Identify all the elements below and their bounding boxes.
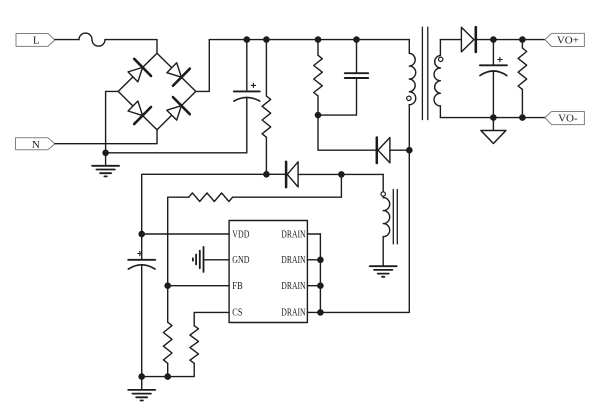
resistor R4 (feedback, horizontal)	[168, 193, 233, 202]
transformer T1 core	[422, 27, 427, 119]
node top rail / C1	[244, 36, 251, 43]
resistor R5 (FB lower divider)	[163, 286, 172, 377]
svg-text:VO-: VO-	[558, 112, 578, 124]
resistor R3 (output load)	[518, 40, 527, 118]
node top rail / R2	[315, 36, 322, 43]
wire GND pin	[204, 259, 230, 261]
wire bridge right vertex to top rail	[196, 40, 210, 92]
wire top DC rail	[209, 39, 409, 41]
diode D2 (bridge, top to right)	[163, 59, 189, 86]
wire primary ground rail	[106, 152, 247, 154]
diode D6 (output rectifier)	[461, 27, 475, 52]
resistor R2 (snubber, vertical)	[314, 40, 323, 116]
port tag VO+	[545, 33, 584, 46]
svg-text:VDD: VDD	[232, 229, 249, 240]
transformer T1 aux winding	[383, 174, 390, 266]
svg-text:L: L	[33, 35, 40, 47]
node top rail / C2	[353, 36, 360, 43]
wire output diode to VO+	[476, 39, 545, 41]
node primary ground	[102, 150, 109, 157]
aux phase dot	[381, 192, 385, 196]
wire vdd rail to diode D7	[266, 173, 285, 175]
svg-text:DRAIN: DRAIN	[281, 308, 306, 319]
ground (GND pin, rotated)	[193, 247, 204, 272]
node DRAIN 3	[317, 282, 324, 289]
node drain / primary bottom	[406, 147, 413, 154]
wire DRAIN pin 3 stub	[307, 285, 320, 287]
diode D7 (aux rectifier, cathode left)	[286, 162, 383, 187]
diode D3 (bridge, left to bottom)	[125, 97, 151, 124]
node load resistor top	[519, 36, 526, 43]
wire DRAIN to transformer	[320, 150, 409, 312]
primary phase dot	[407, 96, 411, 100]
capacitor C1 (bulk electrolytic)	[234, 40, 260, 153]
ground (aux winding)	[370, 266, 397, 277]
node DRAIN 2	[317, 257, 324, 264]
capacitor C3 (output electrolytic)	[480, 40, 507, 118]
port tag N	[16, 138, 55, 151]
aux core	[393, 190, 397, 244]
node load resistor bottom	[519, 114, 526, 121]
node startup R bottom / vdd rail	[263, 171, 270, 178]
svg-text:DRAIN: DRAIN	[281, 255, 306, 266]
wire DRAIN pin 2 stub	[307, 259, 320, 261]
node aux diode / FB tap	[338, 171, 345, 178]
transformer T1 secondary winding	[434, 40, 440, 118]
wire vdd rail left	[142, 174, 267, 234]
node DRAIN 4	[317, 309, 324, 316]
wire FB tap down	[233, 174, 342, 197]
wire FB vertical	[167, 197, 169, 286]
wire FB pin	[168, 285, 229, 287]
wire bridge left vertex to ground node	[106, 91, 119, 153]
port tag VO-	[545, 112, 584, 125]
wire CS pin	[194, 312, 229, 325]
wire secondary bottom rail	[440, 117, 545, 119]
diode D5 (clamp, cathode left)	[377, 138, 410, 164]
node bottom rail R5	[164, 373, 171, 380]
svg-text:GND: GND	[232, 255, 249, 266]
wire L to fuse	[55, 39, 79, 41]
node VDD	[138, 231, 145, 238]
IC U1 body	[229, 221, 307, 323]
node top rail / R1	[263, 36, 270, 43]
transformer T1 primary winding	[409, 40, 415, 151]
node output cap bottom	[490, 114, 497, 121]
diode D4 (bridge, bottom to right)	[163, 97, 189, 124]
node R2/C2 clamp bottom	[315, 112, 322, 119]
wire N to bridge bottom	[55, 130, 157, 144]
secondary phase dot	[439, 57, 443, 61]
diode D1 (bridge, lower-left to top)	[125, 59, 151, 86]
svg-text:N: N	[32, 139, 40, 151]
ground (primary)	[92, 153, 119, 176]
wire DRAIN pin 1 stub	[307, 233, 320, 235]
wire bottom ground rail	[142, 376, 168, 378]
capacitor C2 (snubber)	[318, 40, 368, 116]
node bottom rail C4	[138, 373, 145, 380]
svg-text:DRAIN: DRAIN	[281, 229, 306, 240]
wire clamp to diode D5	[318, 115, 376, 150]
svg-text:FB: FB	[232, 281, 243, 292]
wire fuse to bridge top	[105, 40, 157, 54]
wire DRAIN bus	[319, 234, 321, 312]
wire secondary top to output diode	[440, 39, 461, 41]
node output cap top	[490, 36, 497, 43]
svg-text:VO+: VO+	[557, 34, 579, 46]
svg-text:DRAIN: DRAIN	[281, 281, 306, 292]
ground (bottom left)	[128, 377, 155, 401]
ground (output, triangle)	[481, 118, 506, 144]
svg-text:CS: CS	[232, 308, 242, 319]
bridge diamond wires	[118, 53, 196, 130]
port tag L	[16, 34, 55, 47]
node FB	[164, 282, 171, 289]
wire DRAIN pin 4 stub	[307, 311, 320, 313]
fuse F1	[79, 33, 105, 46]
wire VDD pin	[142, 233, 229, 235]
resistor R6 (current sense)	[168, 326, 199, 377]
capacitor C4 (VDD electrolytic)	[128, 234, 155, 377]
resistor R1 (startup, vertical)	[262, 40, 271, 175]
